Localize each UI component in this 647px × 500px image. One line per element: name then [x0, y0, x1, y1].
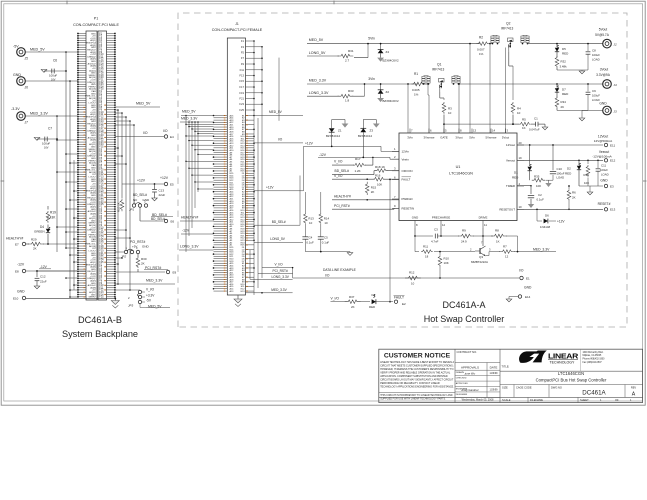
svg-text:D5: D5	[562, 47, 566, 51]
svg-text:10: 10	[517, 111, 521, 115]
zener Z3 BZX84C12	[362, 120, 364, 129]
terminal J7 -3.3V	[17, 112, 26, 121]
svg-text:0.1uF: 0.1uF	[306, 241, 314, 245]
svg-text:F23: F23	[239, 102, 244, 106]
resistor R33 1.8	[307, 95, 339, 97]
svg-text:13: 13	[473, 129, 477, 133]
svg-text:J7: J7	[25, 121, 29, 125]
svg-text:MED_5V: MED_5V	[148, 305, 162, 309]
svg-text:MED_3.3V: MED_3.3V	[146, 279, 163, 283]
svg-text:F1: F1	[241, 39, 245, 43]
svg-text:F13: F13	[239, 74, 244, 78]
svg-text:E7: E7	[15, 243, 19, 247]
vertical bus right of P1	[117, 110, 119, 284]
svg-text:FAULT: FAULT	[394, 296, 404, 300]
svg-text:+12V: +12V	[137, 178, 146, 182]
svg-text:18: 18	[425, 255, 429, 259]
svg-text:Fax:(408)434-0507: Fax:(408)434-0507	[583, 362, 603, 364]
svg-text:BD_SEL#: BD_SEL#	[151, 217, 165, 221]
svg-text:System Backplane: System Backplane	[62, 329, 138, 339]
resistor R4 10	[511, 102, 515, 114]
P1 right pins	[107, 33, 116, 35]
svg-text:V_I/O: V_I/O	[334, 160, 343, 164]
svg-text:+12V: +12V	[305, 142, 314, 146]
wire data line example	[293, 277, 519, 279]
svg-text:CON-COMPACT-PCI FEMALE: CON-COMPACT-PCI FEMALE	[212, 28, 263, 32]
svg-text:3Vsense: 3Vsense	[424, 135, 435, 139]
wire +12V to E5	[122, 183, 165, 185]
svg-text:F21: F21	[239, 97, 244, 101]
svg-text:J5: J5	[25, 57, 29, 61]
wire	[332, 208, 394, 210]
svg-text:100uF: 100uF	[42, 142, 50, 146]
wire	[25, 80, 70, 82]
svg-text:10K: 10K	[444, 261, 449, 265]
svg-text:R30: R30	[141, 257, 147, 261]
wire FAULT net vertical	[389, 179, 391, 301]
svg-text:R13: R13	[308, 216, 314, 220]
resistor R31 2.7	[307, 55, 339, 57]
wire Q2 gate to R4	[508, 52, 510, 66]
resistor R13 10	[304, 192, 306, 213]
svg-text:DRIVE: DRIVE	[479, 215, 488, 219]
svg-text:100uF: 100uF	[600, 168, 608, 172]
svg-text:11: 11	[484, 223, 487, 227]
wire	[557, 69, 588, 71]
wire PCI_RST#	[258, 273, 293, 275]
svg-text:LONG_5V: LONG_5V	[309, 51, 326, 55]
capacitor C11 100uF	[597, 160, 599, 168]
resistor R9 24.9	[458, 234, 474, 238]
svg-text:F19: F19	[239, 91, 244, 95]
svg-text:V_I/O: V_I/O	[331, 296, 340, 300]
svg-text:I/O: I/O	[163, 129, 168, 133]
svg-text:MED_5V: MED_5V	[30, 48, 45, 52]
resistor R7 12	[486, 255, 489, 257]
svg-text:HEALTHY#: HEALTHY#	[334, 195, 351, 199]
wire I/O from J1	[254, 142, 303, 144]
svg-text:MED_3.3V: MED_3.3V	[271, 288, 287, 292]
svg-text:12: 12	[442, 223, 446, 227]
resistor R6 2K	[568, 186, 570, 189]
svg-text:P1: P1	[94, 17, 98, 21]
svg-text:PERFORMANCE OR RELIABILITY. CO: PERFORMANCE OR RELIABILITY. CONTACT LINE…	[380, 382, 440, 385]
svg-text:PCI_RST#: PCI_RST#	[334, 204, 350, 208]
svg-text:PCI_RST#: PCI_RST#	[273, 269, 288, 273]
svg-text:Z3: Z3	[370, 129, 374, 133]
svg-text:C13: C13	[159, 189, 165, 193]
svg-text:GREEN: GREEN	[34, 230, 45, 234]
svg-text:10: 10	[448, 111, 452, 115]
svg-text:R17: R17	[355, 157, 361, 161]
svg-text:june Wu: june Wu	[464, 372, 476, 376]
ground	[548, 180, 550, 183]
svg-text:1%: 1%	[414, 92, 419, 96]
svg-text:BZX84C12: BZX84C12	[358, 134, 373, 138]
svg-text:C1: C1	[534, 117, 538, 121]
resistor R25 2K	[120, 199, 124, 212]
svg-text:3Vin: 3Vin	[368, 77, 375, 81]
svg-text:RED: RED	[562, 52, 569, 56]
svg-text:5Vsense: 5Vsense	[486, 135, 497, 139]
wire -12V to Veein	[372, 157, 374, 159]
svg-text:CON-COMPACT-PCI MALE: CON-COMPACT-PCI MALE	[73, 23, 119, 27]
wire I/O to E4	[115, 136, 165, 138]
svg-text:+12V: +12V	[266, 185, 274, 189]
svg-text:+12V: +12V	[557, 219, 565, 223]
LED D7 RED	[556, 83, 558, 85]
capacitor C13 22uF	[154, 184, 156, 189]
svg-text:LOAD: LOAD	[592, 58, 600, 62]
svg-text:2K: 2K	[561, 105, 565, 109]
svg-text:3.48k: 3.48k	[560, 65, 568, 69]
svg-text:5Vin: 5Vin	[469, 135, 475, 139]
svg-text:F17: F17	[239, 85, 244, 89]
LED D2 RED	[578, 160, 580, 165]
svg-text:GND: GND	[17, 290, 25, 294]
svg-text:I/O: I/O	[519, 269, 524, 273]
wire BD_SEL# to E6	[139, 207, 141, 221]
svg-text:R11: R11	[423, 245, 428, 249]
op-amp U1 LTC1646CGN	[399, 133, 517, 221]
svg-text:HEALTHY#: HEALTHY#	[6, 237, 23, 241]
svg-text:MMBT2222A: MMBT2222A	[471, 260, 488, 264]
resistor R34 2K	[555, 97, 559, 108]
resistor R16 10K	[332, 178, 374, 180]
ground	[542, 127, 548, 130]
svg-text:E11: E11	[610, 143, 615, 147]
svg-text:10: 10	[519, 205, 523, 209]
svg-text:R2: R2	[479, 36, 483, 40]
svg-text:2K: 2K	[141, 262, 145, 266]
svg-text:-12V: -12V	[319, 153, 327, 157]
svg-text:E5: E5	[170, 183, 174, 187]
svg-text:D2: D2	[567, 167, 571, 171]
wire MED_5V from J1	[254, 115, 303, 117]
svg-text:C4: C4	[309, 236, 313, 240]
svg-text:R3: R3	[448, 107, 452, 111]
ground	[305, 251, 350, 253]
terminal E6 BD_SEL#	[164, 219, 167, 222]
svg-text:LOAD: LOAD	[601, 173, 609, 177]
svg-text:U1: U1	[456, 165, 461, 169]
svg-text:12Vout: 12Vout	[598, 135, 608, 139]
svg-text:J3: J3	[614, 110, 618, 114]
svg-text:HOWEVER, IT REMAINS THE CUSTOM: HOWEVER, IT REMAINS THE CUSTOMER'S RESPO…	[380, 368, 453, 371]
svg-text:5V@5.7A: 5V@5.7A	[595, 33, 610, 37]
svg-text:BZX84C6V2: BZX84C6V2	[383, 59, 399, 63]
svg-text:I/O: I/O	[278, 137, 283, 141]
svg-text:OF: OF	[615, 398, 619, 402]
svg-text:100uF: 100uF	[592, 53, 600, 57]
svg-text:MED_3.3V: MED_3.3V	[533, 247, 550, 251]
svg-text:E8: E8	[15, 270, 19, 274]
svg-text:R14: R14	[324, 216, 330, 220]
svg-text:16V: 16V	[44, 147, 49, 150]
wire V_I/O	[262, 267, 293, 269]
svg-text:E13: E13	[610, 208, 616, 212]
svg-text:CIRCUIT BOARD LAYOUT MAY SIGNI: CIRCUIT BOARD LAYOUT MAY SIGNIFICANTLY A…	[380, 379, 454, 382]
wire zener bus	[304, 145, 382, 147]
svg-text:BD_SEL#: BD_SEL#	[272, 220, 286, 224]
wire Veeout to E12	[517, 159, 603, 161]
svg-text:R12: R12	[409, 270, 415, 274]
terminal J5 -5V	[17, 48, 26, 57]
svg-text:SCALE: SCALE	[502, 398, 511, 402]
svg-text:R31: R31	[348, 49, 354, 53]
svg-text:GND: GND	[13, 73, 21, 77]
svg-text:JP3: JP3	[128, 304, 134, 308]
svg-text:I/O: I/O	[143, 131, 148, 135]
svg-text:22uF: 22uF	[159, 193, 166, 197]
capacitor C1 0.047uF	[531, 123, 536, 125]
resistor R17 1.2K	[332, 164, 354, 166]
svg-text:DATE: DATE	[490, 365, 498, 369]
svg-text:Andy Gardner: Andy Gardner	[460, 388, 479, 392]
wire 5Vsense	[489, 44, 491, 133]
wire 3Vsense pin	[427, 84, 429, 95]
terminal E9 PCI_RST#	[166, 270, 169, 273]
svg-text:E14: E14	[525, 295, 531, 299]
svg-text:-5V: -5V	[13, 45, 19, 49]
svg-text:IRF7413: IRF7413	[432, 68, 444, 72]
capacitor C4 0.1uF	[304, 224, 306, 237]
svg-text:Z4: Z4	[386, 50, 390, 54]
wire Veein	[318, 156, 390, 158]
wire 5V rail	[307, 43, 480, 45]
svg-text:Phone:(408)432-1900: Phone:(408)432-1900	[583, 359, 606, 361]
wire fault	[331, 301, 348, 303]
svg-text:FAULT: FAULT	[402, 178, 411, 182]
wire BD_SEL# from J1	[254, 224, 300, 226]
svg-text:RESETOUT: RESETOUT	[499, 207, 515, 211]
svg-text:R18 1K: R18 1K	[375, 165, 385, 169]
svg-text:4.7nF: 4.7nF	[431, 240, 439, 244]
svg-text:OFF/ON: OFF/ON	[402, 169, 413, 173]
svg-text:J6: J6	[25, 86, 29, 90]
svg-text:10K: 10K	[377, 182, 382, 186]
svg-text:DRAWN: DRAWN	[456, 371, 465, 374]
svg-text:TECHNOLOGY: TECHNOLOGY	[550, 360, 575, 364]
svg-text:5Vout: 5Vout	[502, 135, 509, 139]
svg-text:3Vout: 3Vout	[600, 68, 609, 72]
svg-text:A: A	[632, 392, 636, 398]
svg-text:FILENAME: FILENAME	[530, 398, 543, 402]
svg-text:D7: D7	[562, 87, 566, 91]
svg-text:+12V: +12V	[160, 176, 169, 180]
svg-text:LONG_3.3V: LONG_3.3V	[309, 91, 329, 95]
svg-text:R19: R19	[50, 211, 56, 215]
svg-text:MED_3.3V: MED_3.3V	[30, 112, 48, 116]
svg-text:E1: E1	[526, 276, 530, 280]
svg-text:J2: J2	[614, 43, 618, 47]
wire precharge	[440, 228, 442, 236]
svg-text:APPROVED: APPROVED	[456, 382, 469, 385]
svg-text:LTC1646CGN: LTC1646CGN	[449, 172, 473, 176]
svg-text:C8: C8	[592, 49, 596, 53]
wire	[25, 51, 66, 53]
resistor R8 1K	[491, 234, 507, 238]
svg-text:5Vin: 5Vin	[368, 37, 375, 41]
svg-text:D4: D4	[40, 225, 44, 229]
svg-text:RED: RED	[369, 305, 375, 309]
svg-text:12Vin: 12Vin	[402, 150, 410, 154]
svg-text:E3: E3	[610, 184, 614, 188]
svg-text:CIRCUIT THAT MEETS CUSTOMER-SU: CIRCUIT THAT MEETS CUSTOMER-SUPPLIED SPE…	[380, 364, 454, 367]
svg-text:E9: E9	[173, 271, 177, 275]
svg-text:SHEET: SHEET	[580, 398, 589, 402]
wire MED_5V	[115, 106, 160, 108]
U1 bottom pins	[414, 221, 416, 229]
svg-text:10: 10	[309, 221, 313, 225]
resistor R35 10K	[532, 178, 545, 182]
svg-text:R10: R10	[444, 257, 450, 261]
capacitor C3 4.7nF	[415, 235, 433, 237]
svg-text:F15: F15	[99, 296, 104, 299]
svg-text:+3.3V: +3.3V	[146, 294, 155, 298]
svg-text:2K: 2K	[351, 305, 355, 309]
J1 left pins	[214, 115, 228, 117]
svg-text:MED_5V: MED_5V	[309, 38, 324, 42]
svg-text:C2: C2	[538, 193, 542, 197]
P1 left pins	[78, 33, 86, 35]
svg-text:RED: RED	[562, 92, 569, 96]
ground	[34, 138, 40, 141]
capacitor C5 0.1uF	[320, 224, 322, 237]
transistor Q3 MMBT2222A	[479, 248, 481, 254]
resistor R37 2K	[345, 300, 361, 304]
svg-text:RESETIN: RESETIN	[402, 206, 415, 210]
resistor R18 1K	[332, 174, 374, 176]
svg-text:HEALTHY#: HEALTHY#	[181, 216, 198, 220]
ground below P1	[114, 297, 116, 301]
svg-text:R37: R37	[349, 295, 355, 299]
svg-text:I/O: I/O	[325, 274, 330, 278]
svg-text:MED_3.3V: MED_3.3V	[181, 117, 198, 121]
wire gate node	[444, 123, 513, 125]
svg-text:14: 14	[492, 129, 496, 133]
svg-text:2K: 2K	[33, 247, 37, 251]
svg-text:C6: C6	[53, 59, 57, 63]
zener Z4 BZX84C6V2	[380, 44, 382, 50]
svg-text:3Vin: 3Vin	[407, 135, 413, 139]
wire +12V to 12Vin pin	[380, 146, 382, 151]
svg-text:VERIFY PROPER AND RELIABLE OPE: VERIFY PROPER AND RELIABLE OPERATION IN …	[380, 371, 451, 374]
svg-text:R16: R16	[375, 174, 381, 178]
resistor R29 2K	[26, 243, 30, 245]
svg-text:APPROVALS: APPROVALS	[461, 365, 479, 369]
svg-text:R7: R7	[503, 245, 507, 249]
svg-text:LONG_3.3V: LONG_3.3V	[180, 245, 199, 249]
wire PCI_RST# to E9	[137, 269, 139, 272]
wire	[332, 199, 399, 201]
ground below J1	[237, 295, 239, 299]
svg-text:10K: 10K	[584, 181, 589, 185]
resistor R5 1K	[513, 123, 519, 125]
dashed section outline	[178, 13, 627, 327]
svg-text:R32: R32	[561, 60, 567, 64]
svg-text:GND: GND	[599, 102, 607, 106]
svg-text:TITLE:: TITLE:	[502, 365, 510, 369]
svg-text:R35: R35	[534, 175, 540, 179]
svg-text:GND: GND	[412, 215, 418, 219]
svg-text:LTC1646CGN: LTC1646CGN	[558, 371, 584, 376]
svg-text:PWRGD: PWRGD	[402, 197, 413, 201]
svg-text:V_I/O: V_I/O	[146, 288, 155, 292]
svg-text:DC461A: DC461A	[582, 390, 606, 397]
svg-text:1K: 1K	[522, 126, 526, 130]
svg-text:R4: R4	[517, 107, 521, 111]
resistor R15 2K	[365, 182, 369, 195]
svg-text:-12V: -12V	[40, 265, 48, 269]
svg-text:BZX84C6V2: BZX84C6V2	[383, 99, 399, 103]
svg-text:BD_SEL#: BD_SEL#	[335, 169, 350, 173]
svg-text:APPLICATION. COMPONENT SUBSTIT: APPLICATION. COMPONENT SUBSTITUTION AND …	[380, 375, 448, 378]
svg-text:Q1: Q1	[437, 63, 442, 67]
svg-text:E4: E4	[170, 135, 174, 139]
svg-text:DC461A-A: DC461A-A	[442, 300, 485, 310]
svg-text:F25: F25	[239, 108, 244, 112]
svg-text:1.2K: 1.2K	[355, 169, 361, 173]
resistor R14 10	[320, 192, 322, 213]
svg-text:D1: D1	[514, 171, 518, 175]
diode D6 1N4148	[536, 209, 538, 221]
zener Z1 BZX84C12	[331, 120, 333, 129]
svg-text:CUSTOMER NOTICE: CUSTOMER NOTICE	[384, 353, 451, 360]
resistor R11 18	[414, 236, 416, 252]
svg-text:V_I/O: V_I/O	[334, 174, 343, 178]
svg-text:DC461A-B: DC461A-B	[78, 315, 122, 325]
wire 3Vin pin	[407, 84, 409, 133]
svg-text:E12: E12	[610, 159, 616, 163]
svg-text:C3: C3	[434, 228, 438, 232]
wire GND pin	[414, 228, 416, 236]
svg-text:1%: 1%	[479, 52, 484, 56]
svg-text:F9: F9	[241, 62, 245, 66]
svg-text:R34: R34	[561, 100, 567, 104]
resistor R3 10	[442, 102, 446, 114]
ground	[41, 70, 47, 73]
svg-text:1/29/99: 1/29/99	[490, 372, 499, 375]
svg-text:C7: C7	[48, 127, 52, 131]
svg-text:C5: C5	[324, 236, 328, 240]
capacitor C10 100uF	[552, 145, 554, 170]
svg-text:CAGE CODE: CAGE CODE	[516, 386, 532, 390]
svg-text:R29: R29	[31, 238, 37, 242]
svg-text:1/29/99: 1/29/99	[490, 389, 499, 392]
capacitor C2 0.1uF	[528, 194, 534, 196]
svg-text:MED_3.3V: MED_3.3V	[309, 78, 327, 82]
svg-text:1.8: 1.8	[345, 99, 350, 103]
svg-text:LONG_3.3V: LONG_3.3V	[272, 275, 290, 279]
svg-text:12Vout: 12Vout	[506, 143, 515, 147]
svg-text:2K: 2K	[371, 190, 375, 194]
resistor R30 2K	[137, 254, 139, 258]
U1 right pins	[517, 144, 524, 146]
svg-text:R36: R36	[584, 173, 590, 177]
svg-text:JP1: JP1	[129, 208, 135, 212]
svg-text:MED_5V: MED_5V	[269, 110, 283, 114]
svg-text:DATA LINE EXAMPLE: DATA LINE EXAMPLE	[323, 268, 357, 272]
svg-text:-3.3V: -3.3V	[11, 107, 20, 111]
svg-text:Veeout: Veeout	[506, 158, 515, 162]
svg-text:GND: GND	[600, 179, 608, 183]
svg-text:R1: R1	[414, 72, 418, 76]
svg-text:TECHNOLOGY APPLICATIONS ENGINE: TECHNOLOGY APPLICATIONS ENGINEERING FOR …	[380, 386, 454, 389]
svg-text:CONTRACT NO.: CONTRACT NO.	[457, 350, 478, 354]
svg-text:CHECKED: CHECKED	[456, 377, 467, 379]
svg-text:JP2: JP2	[121, 255, 127, 259]
